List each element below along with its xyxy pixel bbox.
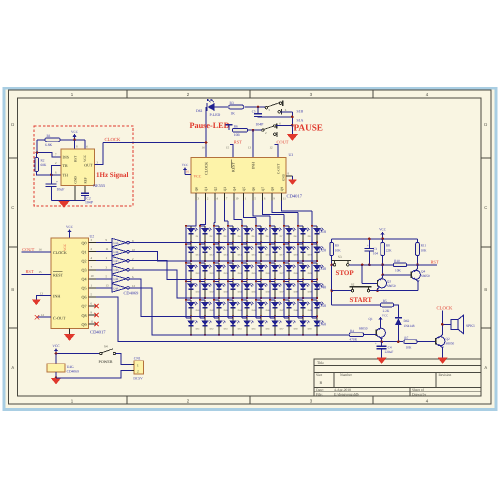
- junction: [269, 262, 271, 264]
- wire INH stub U3: [252, 130, 254, 157]
- svg-text:GND: GND: [74, 176, 78, 184]
- wire Q6 to column 7: [253, 201, 270, 216]
- junction: [50, 174, 53, 177]
- svg-text:D40: D40: [319, 285, 326, 290]
- photo area with blue border and cream paper: [4, 88, 496, 409]
- capacitor C5 104P: [254, 113, 262, 115]
- junction: [316, 260, 318, 262]
- svg-text:D62: D62: [404, 319, 410, 323]
- junction: [274, 279, 276, 281]
- transistor Q1: [376, 328, 385, 337]
- junction: [199, 280, 201, 282]
- power bar feed for R6: [226, 124, 233, 126]
- junction: [288, 242, 290, 244]
- junction: [330, 264, 333, 267]
- wire bottom rail 555: [51, 200, 85, 202]
- svg-text:B: B: [484, 287, 487, 292]
- junction: [185, 262, 187, 264]
- junction: [227, 262, 229, 264]
- svg-text:R1: R1: [47, 134, 51, 138]
- junction: [269, 299, 271, 301]
- wire speaker tap: [442, 323, 450, 325]
- wire Q9 to column 10: [282, 201, 313, 211]
- wire pause bus vertical: [291, 112, 293, 134]
- junction: [199, 225, 201, 227]
- led D8: [284, 225, 289, 227]
- svg-text:E:\dongyong.ddb: E:\dongyong.ddb: [334, 392, 359, 396]
- junction: [274, 260, 276, 262]
- svg-text:A: A: [484, 365, 487, 370]
- junction: [190, 260, 192, 262]
- inverter U4E: [96, 278, 112, 280]
- svg-text:S1B: S1B: [297, 110, 304, 114]
- led D39: [298, 280, 303, 282]
- junction: [311, 262, 313, 264]
- junction: [316, 334, 318, 336]
- svg-text:13: 13: [40, 291, 44, 295]
- margin column ticks bottom: [126, 396, 128, 404]
- svg-text:C: C: [11, 205, 14, 210]
- svg-text:NE555: NE555: [93, 183, 105, 188]
- junction: [274, 334, 276, 336]
- svg-text:VCC: VCC: [382, 314, 388, 318]
- led D41: [186, 299, 191, 301]
- junction: [36, 151, 39, 154]
- junction: [302, 316, 304, 318]
- svg-text:RST: RST: [234, 139, 242, 144]
- junction: [227, 280, 229, 282]
- inverter U4A: [96, 242, 112, 244]
- svg-text:VCC: VCC: [83, 154, 87, 162]
- led D40: [312, 280, 317, 282]
- ground supply: [51, 378, 61, 384]
- wire R7 to Q2 base: [418, 341, 436, 343]
- junction: [218, 279, 220, 281]
- led D33: [214, 280, 219, 282]
- svg-text:P-LED: P-LED: [210, 113, 221, 117]
- wire inverter B output to row 2: [129, 252, 317, 261]
- junction: [204, 316, 206, 318]
- junction: [73, 139, 76, 142]
- svg-text:+: +: [367, 243, 369, 247]
- led D15: [242, 243, 247, 245]
- junction: [185, 225, 187, 227]
- ic U4G CD4069 body: [47, 364, 65, 372]
- svg-text:11: 11: [283, 197, 286, 201]
- outer border frame: [9, 90, 492, 404]
- junction: [368, 238, 371, 241]
- resistor R8: [382, 239, 384, 243]
- svg-text:D10: D10: [319, 229, 326, 234]
- svg-text:CLOCK: CLOCK: [53, 250, 67, 255]
- resistor R2: [35, 158, 39, 172]
- svg-text:13: 13: [248, 145, 252, 149]
- junction: [316, 316, 318, 318]
- junction: [274, 297, 276, 299]
- svg-text:VCC: VCC: [71, 130, 79, 134]
- svg-text:GND: GND: [282, 173, 286, 181]
- title block line above File row: [314, 391, 481, 393]
- junction: [302, 242, 304, 244]
- led D25: [242, 262, 247, 264]
- inverter U4C: [96, 260, 112, 262]
- led D30: [312, 262, 317, 264]
- svg-text:C5: C5: [252, 110, 256, 114]
- led D37: [270, 280, 275, 282]
- wire Q4 emitter to start row: [414, 278, 418, 291]
- svg-text:C-OUT: C-OUT: [53, 315, 66, 320]
- svg-text:Q3: Q3: [81, 267, 86, 272]
- junction: [246, 316, 248, 318]
- junction: [260, 279, 262, 281]
- svg-text:Q3: Q3: [223, 187, 227, 192]
- dashed box 1Hz Signal: [34, 126, 133, 206]
- U2 pin Q1 stub: [89, 251, 97, 253]
- U2 pin Q7 stub: [89, 305, 97, 307]
- wire Q6 long route to audio: [96, 297, 403, 342]
- svg-text:Q5: Q5: [242, 187, 246, 192]
- svg-text:Q6: Q6: [81, 295, 86, 300]
- svg-text:CD4017: CD4017: [90, 330, 106, 335]
- led D47: [270, 299, 275, 301]
- led D12: [200, 243, 205, 245]
- junction: [288, 297, 290, 299]
- svg-text:S2: S2: [351, 282, 355, 286]
- wire Q2 to column 3: [214, 201, 215, 223]
- junction: [381, 264, 384, 267]
- ground Q2: [438, 358, 448, 364]
- junction: [246, 279, 248, 281]
- wire Q3 emitter: [378, 286, 380, 290]
- wire R4 to Q1 base: [364, 334, 377, 336]
- junction: [274, 242, 276, 244]
- resistor R7: [404, 340, 417, 344]
- led D9: [298, 225, 303, 227]
- U2 left pin RESET wire: [22, 273, 51, 275]
- svg-text:VCC: VCC: [52, 344, 60, 348]
- svg-text:10K: 10K: [335, 248, 341, 252]
- wire S1A throw to bus: [276, 124, 292, 126]
- junction: [381, 238, 384, 241]
- junction: [232, 334, 234, 336]
- led D26: [256, 262, 261, 264]
- led D50: [312, 299, 317, 301]
- wire R3 to switch S1B: [245, 106, 266, 108]
- junction: [283, 299, 285, 301]
- svg-text:13: 13: [106, 283, 110, 287]
- pin 8 GND stub U3 right: [286, 175, 293, 177]
- junction: [241, 299, 243, 301]
- junction: [199, 243, 201, 245]
- svg-text:R4: R4: [350, 329, 354, 333]
- led D36: [256, 280, 261, 282]
- junction: [397, 340, 400, 343]
- wire C5 top lead: [257, 107, 259, 114]
- junction: [252, 129, 255, 132]
- junction: [255, 225, 257, 227]
- resistor R5: [380, 303, 393, 307]
- led D16: [256, 243, 261, 245]
- svg-text:File:: File:: [316, 392, 323, 396]
- wire C3 bottom: [368, 251, 370, 265]
- junction: [190, 334, 192, 336]
- junction: [288, 260, 290, 262]
- junction: [246, 297, 248, 299]
- junction: [227, 225, 229, 227]
- junction: [302, 260, 304, 262]
- svg-text:CD4069: CD4069: [67, 370, 79, 374]
- ground INH: [32, 300, 41, 306]
- junction: [274, 316, 276, 318]
- wire OUT to clock net: [95, 143, 103, 165]
- junction: [227, 299, 229, 301]
- junction: [283, 262, 285, 264]
- svg-text:Q1: Q1: [369, 317, 373, 321]
- junction: [204, 297, 206, 299]
- junction: [291, 124, 294, 127]
- switch S1B: [265, 107, 267, 109]
- led D3: [214, 225, 219, 227]
- led D23: [214, 262, 219, 264]
- led D48: [284, 299, 289, 301]
- svg-text:15: 15: [39, 270, 43, 274]
- junction: [255, 243, 257, 245]
- junction: [416, 264, 419, 267]
- led D38: [284, 280, 289, 282]
- junction: [330, 289, 333, 292]
- junction: [232, 242, 234, 244]
- wire COUT stub U3: [275, 145, 279, 158]
- svg-text:VCC: VCC: [379, 228, 387, 232]
- svg-text:D30: D30: [319, 266, 326, 271]
- wire C5 bottom to pause bus: [258, 116, 292, 118]
- junction: [232, 316, 234, 318]
- ic U3 CD4017 body: [191, 158, 286, 194]
- junction: [205, 141, 208, 144]
- junction: [288, 279, 290, 281]
- led D24: [228, 262, 233, 264]
- ground pause: [287, 134, 298, 141]
- wire Q4 collector: [414, 265, 418, 272]
- resistor R3: [229, 105, 244, 109]
- junction: [190, 297, 192, 299]
- svg-text:U4F: U4F: [114, 287, 119, 290]
- svg-text:Drawn by: Drawn by: [412, 392, 426, 396]
- title block outline: [314, 359, 481, 396]
- svg-text:Q2: Q2: [81, 258, 86, 263]
- junction: [260, 297, 262, 299]
- svg-text:S4: S4: [104, 345, 108, 349]
- no-erc cross Q7: [94, 304, 98, 308]
- svg-text:R9: R9: [335, 243, 339, 247]
- svg-text:Q0: Q0: [195, 187, 199, 192]
- led D42: [200, 299, 205, 301]
- transistor Q2: [436, 337, 445, 346]
- U2 pin Q6 stub: [89, 296, 97, 298]
- resistor R1: [45, 138, 60, 142]
- margin row ticks right: [481, 157, 491, 159]
- junction: [213, 225, 215, 227]
- wire TR tie to TH: [51, 165, 61, 174]
- svg-text:Number: Number: [340, 373, 353, 377]
- svg-text:S8050: S8050: [359, 327, 368, 331]
- svg-text:INH: INH: [53, 294, 60, 299]
- svg-text:10: 10: [91, 274, 95, 278]
- led D45: [242, 299, 247, 301]
- wire Q1 emitter: [379, 336, 382, 341]
- wire Q4 to column 5: [234, 201, 242, 220]
- transistor Q3: [362, 282, 377, 284]
- svg-text:CLOCK: CLOCK: [437, 305, 454, 311]
- wire REF pin stub: [84, 186, 86, 193]
- inner border frame: [18, 98, 482, 396]
- svg-text:R7: R7: [404, 336, 408, 340]
- junction: [255, 299, 257, 301]
- svg-text:1K: 1K: [231, 112, 236, 116]
- U2 pin Q5 stub: [89, 287, 97, 289]
- led D56: [256, 317, 261, 319]
- led D49: [298, 299, 303, 301]
- wire R2 bottom to TH: [37, 172, 61, 175]
- wire R6 to S1A: [248, 129, 262, 131]
- junction: [199, 299, 201, 301]
- wire Q3 to column 4: [225, 201, 229, 221]
- svg-text:Q7: Q7: [81, 304, 86, 309]
- junction: [232, 279, 234, 281]
- svg-text:22K: 22K: [386, 248, 392, 252]
- power VCC U3 left: [184, 168, 186, 173]
- speaker SPK1: [451, 319, 458, 329]
- wire Q3 base vertical: [361, 265, 363, 284]
- svg-text:10R: 10R: [234, 133, 241, 137]
- svg-text:VCC: VCC: [194, 174, 202, 178]
- power VCC 555: [74, 134, 76, 140]
- junction: [204, 242, 206, 244]
- svg-text:6.8K: 6.8K: [45, 143, 52, 147]
- svg-text:D61: D61: [196, 109, 203, 113]
- led D13: [214, 243, 219, 245]
- svg-text:VCC: VCC: [182, 163, 189, 167]
- svg-text:Title: Title: [317, 361, 324, 365]
- svg-text:Revision: Revision: [439, 373, 452, 377]
- junction: [213, 280, 215, 282]
- svg-text:11: 11: [106, 247, 109, 251]
- svg-text:Q5: Q5: [81, 286, 86, 291]
- svg-text:A: A: [11, 365, 14, 370]
- ground U2: [69, 329, 71, 334]
- svg-text:104P: 104P: [85, 201, 93, 205]
- svg-text:COUT: COUT: [22, 247, 34, 252]
- U2 pin Q4 stub: [89, 278, 97, 280]
- svg-text:Q9: Q9: [280, 187, 284, 192]
- svg-text:U4E: U4E: [114, 278, 119, 281]
- svg-text:R6: R6: [234, 125, 238, 129]
- svg-text:15: 15: [226, 145, 230, 149]
- led D57: [270, 317, 275, 319]
- capacitor C1 10uF: [46, 183, 57, 185]
- junction: [190, 242, 192, 244]
- svg-text:Q8: Q8: [81, 313, 86, 318]
- wire C4 to ground: [381, 349, 383, 358]
- svg-text:1N4148: 1N4148: [404, 324, 415, 328]
- wire GND pin stub: [74, 186, 76, 201]
- svg-text:1: 1: [137, 363, 139, 367]
- svg-text:+: +: [56, 180, 58, 184]
- svg-text:B: B: [11, 287, 14, 292]
- led D35: [242, 280, 247, 282]
- svg-text:CD4017: CD4017: [287, 193, 303, 198]
- no-erc cross Q9: [94, 322, 98, 326]
- svg-text:S8050: S8050: [421, 274, 430, 278]
- svg-text:10K: 10K: [395, 269, 401, 273]
- transistor Q4: [411, 270, 420, 279]
- wire stop row: [349, 264, 393, 266]
- margin row ticks left: [9, 157, 18, 159]
- svg-text:2: 2: [137, 370, 139, 374]
- svg-text:C3: C3: [373, 247, 377, 251]
- junction: [260, 334, 262, 336]
- wire inverter C output to row 3: [129, 261, 317, 280]
- led D46: [256, 299, 261, 301]
- svg-text:Q1: Q1: [81, 249, 86, 254]
- junction: [246, 242, 248, 244]
- junction: [204, 260, 206, 262]
- junction: [297, 225, 299, 227]
- junction: [381, 274, 384, 277]
- led D52: [200, 317, 205, 319]
- svg-text:U4D: U4D: [114, 269, 119, 272]
- wire left drop to R2: [36, 140, 38, 153]
- junction: [269, 225, 271, 227]
- led D14: [228, 243, 233, 245]
- wire R10 to RST: [407, 264, 437, 266]
- junction: [260, 316, 262, 318]
- svg-text:D50: D50: [319, 303, 326, 308]
- junction: [260, 242, 262, 244]
- junction: [311, 243, 313, 245]
- junction: [246, 334, 248, 336]
- U2 pin Q8 stub: [89, 314, 97, 316]
- svg-text:R11: R11: [421, 243, 427, 247]
- diode D62 1N4148: [395, 317, 402, 319]
- svg-text:C: C: [484, 205, 487, 210]
- wire R2 top stub: [36, 153, 38, 158]
- U2 pin Q2 stub: [89, 260, 97, 262]
- svg-text:12: 12: [270, 145, 274, 149]
- led D31: [186, 280, 191, 282]
- svg-text:TH: TH: [63, 172, 68, 177]
- junction: [185, 280, 187, 282]
- led D53: [214, 317, 219, 319]
- wire C1 top lead: [50, 175, 52, 184]
- svg-text:RST: RST: [431, 259, 439, 264]
- svg-text:C-OUT: C-OUT: [277, 163, 281, 174]
- svg-text:Pause-LED: Pause-LED: [190, 121, 230, 130]
- led D34: [228, 280, 233, 282]
- svg-text:14: 14: [202, 145, 206, 149]
- title block divider Date/Sheet: [409, 388, 411, 397]
- led D61 P-LED: [206, 103, 208, 111]
- led D21: [186, 262, 191, 264]
- switch S3 STOP: [332, 264, 334, 266]
- svg-text:SPK1: SPK1: [466, 324, 475, 328]
- junction: [218, 334, 220, 336]
- svg-text:104P: 104P: [256, 122, 264, 126]
- wire DIS net: [37, 153, 61, 157]
- svg-text:10K: 10K: [406, 345, 412, 349]
- op-amp U1 NE555 body: [61, 149, 95, 186]
- led D17: [270, 243, 275, 245]
